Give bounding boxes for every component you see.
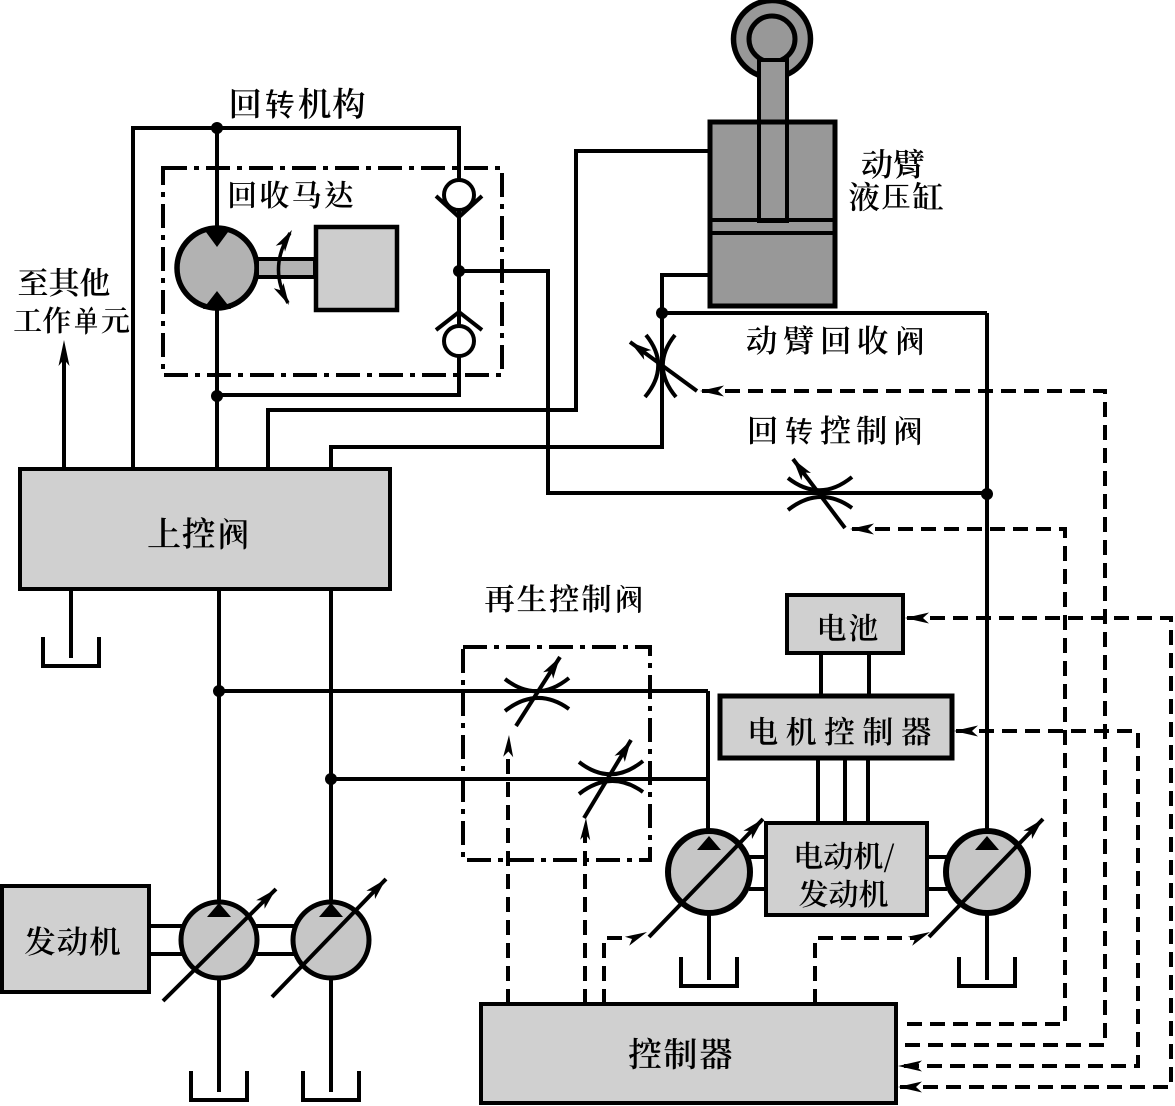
wire: regeneration valve to electric pump bbox=[706, 691, 710, 834]
engine box bbox=[2, 886, 149, 992]
label: swing mechanism bbox=[232, 88, 365, 119]
battery box bbox=[787, 595, 903, 653]
recovery motor load block bbox=[316, 227, 397, 310]
label: to other work units line2 bbox=[14, 306, 129, 334]
boom cylinder piston bbox=[711, 218, 834, 222]
electric motor shaft lines bbox=[749, 855, 767, 859]
controller box bbox=[481, 1004, 896, 1103]
label: engine bbox=[25, 926, 120, 956]
boom cylinder rod bbox=[759, 60, 787, 220]
swing control valve adjust arrow bbox=[793, 459, 845, 528]
wire: left line from swing circuit to upper control valve bbox=[131, 128, 135, 471]
check valve CV1 circle bbox=[444, 180, 474, 210]
junction: cylinder head port bbox=[656, 307, 668, 319]
electric motor/engine box bbox=[766, 823, 927, 915]
swing control valve (throttle) bbox=[788, 477, 852, 510]
electric pump PL adjust arrow bbox=[649, 819, 763, 937]
regeneration throttle 2 adjust arrow bbox=[584, 740, 631, 818]
label: battery bbox=[820, 614, 877, 642]
boom cylinder eye inner circle bbox=[749, 16, 795, 62]
dashed control line: controller to electric pump PL bbox=[604, 932, 647, 1004]
dashed control line: controller to swing control valve bbox=[850, 524, 1065, 1025]
regeneration throttle 1 adjust arrow bbox=[516, 657, 560, 726]
dashed control line: controller and battery bbox=[898, 613, 1171, 1093]
battery wires bbox=[819, 653, 823, 698]
junction: regen line 1 bbox=[213, 685, 225, 697]
swing mechanism dash-dot enclosure bbox=[163, 168, 502, 375]
wire: upper control valve to cylinder rod side bbox=[268, 151, 708, 471]
wire: check valve line right edge bbox=[457, 128, 461, 397]
electric pump PL bbox=[668, 831, 750, 913]
boom cylinder eye outer circle bbox=[734, 1, 811, 78]
motor controller to electric machine wires bbox=[816, 758, 820, 825]
label: controller bbox=[629, 1038, 732, 1070]
engine pump P1 adjust arrow bbox=[163, 889, 276, 1001]
tank under electric pump PL bbox=[681, 957, 737, 986]
wire: right vertical line to electric pump bbox=[985, 313, 989, 980]
electric pump PR bbox=[946, 831, 1028, 913]
check valve CV1 seat bbox=[436, 196, 482, 217]
label: swing control valve bbox=[750, 415, 920, 445]
label: electric motor line2 bbox=[799, 880, 887, 908]
label: recovery motor bbox=[230, 181, 353, 209]
recovery motor rotation arrow bbox=[274, 230, 292, 305]
wire: regeneration line 2 bbox=[331, 777, 708, 781]
label: regeneration control valve bbox=[485, 584, 640, 613]
wire: electric pump left drain bbox=[707, 912, 711, 980]
dashed control line: controller and motor controller bbox=[898, 726, 1138, 1072]
regeneration throttle 2 bbox=[579, 761, 643, 794]
engine pump P2 bbox=[293, 902, 369, 978]
recovery motor bottom flow triangle bbox=[203, 291, 231, 309]
tank under electric pump PR bbox=[959, 957, 1015, 986]
dashed control line: controller to electric pump PR bbox=[815, 932, 930, 1004]
junction: regen line 2 bbox=[325, 773, 337, 785]
junction: swing top bbox=[211, 122, 223, 134]
upper control valve box bbox=[20, 469, 390, 589]
electric pump PR adjust arrow bbox=[929, 819, 1043, 937]
regeneration control valve dash-dot enclosure bbox=[463, 647, 650, 860]
wire: pump 2 line bbox=[329, 589, 333, 1092]
wire: check valve junction to swing control valve line bbox=[459, 271, 985, 493]
engine pump P2 adjust arrow bbox=[272, 879, 386, 997]
label: boom cylinder line1 bbox=[862, 149, 924, 179]
label: upper control valve bbox=[148, 517, 246, 549]
boom recovery valve (throttle) bbox=[645, 335, 676, 397]
wire: cylinder head side to right pump line bbox=[662, 311, 987, 315]
dashed control line: controller to boom recovery valve bbox=[700, 386, 1105, 1046]
wire: upper control valve to boom recovery valve bbox=[331, 275, 708, 471]
wire: swing motor line vertical bbox=[215, 128, 219, 471]
wire: to other work units arrow bbox=[59, 340, 70, 471]
label: boom cylinder line2 bbox=[849, 182, 943, 212]
boom recovery valve adjust arrow bbox=[630, 342, 697, 391]
label: motor controller bbox=[751, 717, 931, 746]
engine-pump shaft lines bbox=[149, 924, 182, 928]
wire: swing circuit bottom line bbox=[217, 393, 461, 397]
recovery motor shaft bbox=[257, 259, 315, 277]
label: to other work units line1 bbox=[19, 268, 110, 297]
wire: pump 1 line bbox=[217, 589, 221, 1092]
junction: swing bottom bbox=[211, 390, 223, 402]
junction: check valves mid bbox=[453, 265, 465, 277]
label: boom recovery valve bbox=[747, 325, 922, 355]
dashed control line: controller to regeneration throttle 1 bbox=[503, 735, 513, 1004]
wire: upper control valve drain to tank bbox=[69, 589, 73, 658]
tank under pump P2 bbox=[303, 1071, 359, 1100]
dashed control line: controller to regeneration throttle 2 bbox=[580, 818, 590, 1004]
check valve CV2 circle bbox=[444, 326, 474, 356]
tank under pump P1 bbox=[191, 1071, 247, 1100]
tank under upper control valve bbox=[43, 637, 99, 666]
recovery motor circle bbox=[177, 228, 257, 308]
check valve CV2 seat bbox=[436, 312, 482, 330]
junction: right line and swing valve line bbox=[981, 488, 993, 500]
regeneration throttle 1 bbox=[505, 678, 569, 711]
motor controller box bbox=[720, 696, 952, 758]
wire: swing circuit top line bbox=[131, 126, 461, 130]
wire: regeneration line 1 bbox=[219, 689, 708, 693]
label: electric motor line1 bbox=[797, 842, 894, 873]
engine pump P1 bbox=[181, 902, 257, 978]
recovery motor top flow triangle bbox=[203, 228, 231, 247]
boom cylinder barrel bbox=[710, 122, 835, 306]
